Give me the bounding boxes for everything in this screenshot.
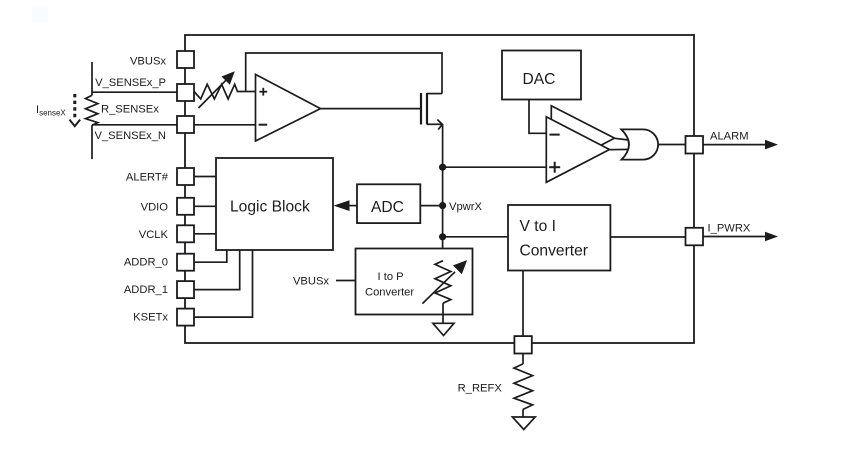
wire: op-amp output to gate (321, 108, 422, 110)
comparator (rear) (551, 106, 614, 172)
wire: V_SENSEx_N to op-amp inverting input (194, 124, 256, 126)
wire: + input to op-amp (246, 91, 256, 93)
Logic Block (216, 158, 333, 250)
ADC block (357, 184, 420, 223)
svg-text:VDIO: VDIO (141, 201, 169, 213)
pin V_SENSEx_N (94, 116, 194, 142)
variable resistor (input gain) (194, 84, 246, 99)
current arrow IsenseX (70, 94, 81, 126)
ground (I to P) (433, 323, 454, 335)
pin ALARM (686, 131, 779, 154)
pin ADDR_0 (124, 250, 227, 271)
node VpwrX rail (442, 124, 444, 260)
svg-text:I_PWRX: I_PWRX (708, 223, 751, 235)
svg-text:I to P: I to P (378, 271, 404, 283)
comparator (front) U3 (546, 117, 609, 183)
wire: ADC to Logic Block arrow (334, 200, 358, 211)
wire: OR gate to ALARM pin (658, 144, 686, 146)
transistor Q1 (MOSFET) (421, 93, 442, 130)
wire: V_SENSEx_N external (92, 124, 177, 126)
pin I_PWRX (686, 223, 779, 246)
junction (439, 164, 446, 171)
OR gate (621, 129, 658, 159)
wire: ADC to VpwrX (420, 205, 442, 207)
wire: op-amp feedback loop (246, 53, 442, 94)
wire: V_SENSEx_P external (92, 91, 177, 93)
pin KSETx (133, 250, 252, 326)
svg-text:VBUSx: VBUSx (130, 56, 166, 68)
resistor R_SENSEx (86, 95, 98, 125)
pin VBUSx (130, 51, 194, 68)
ground (R_REFX) (512, 417, 535, 430)
variable resistor (I to P) (435, 261, 451, 304)
pin V_SENSEx_P (95, 77, 194, 101)
svg-text:V_SENSEx_N: V_SENSEx_N (94, 130, 166, 142)
wire: VpwrX to comparator + (443, 166, 547, 168)
wire: comparator outputs to OR gate (615, 138, 629, 140)
junction (439, 202, 446, 209)
wire: V to I output to I_PWRX (610, 236, 686, 238)
svg-text:ADDR_0: ADDR_0 (124, 257, 168, 269)
svg-text:V to I: V to I (520, 218, 556, 235)
I to P Converter block (356, 249, 473, 315)
svg-text:Converter: Converter (365, 287, 414, 299)
svg-text:VBUSx: VBUSx (293, 276, 329, 288)
svg-text:ADDR_1: ADDR_1 (124, 284, 168, 296)
wire: I to P to ground (442, 303, 444, 323)
IC boundary box (185, 35, 694, 343)
resistor R_REFX (514, 354, 533, 418)
V to I Converter block (508, 205, 610, 271)
svg-text:DAC: DAC (523, 71, 556, 88)
svg-text:R_REFX: R_REFX (458, 383, 503, 395)
wire: V to I to R_REFX pin (522, 271, 524, 337)
pin VDIO (141, 198, 216, 215)
junction (439, 233, 446, 240)
svg-text:VCLK: VCLK (139, 229, 169, 241)
svg-text:KSETx: KSETx (133, 312, 168, 324)
wire: VpwrX to V to I converter (443, 236, 508, 238)
svg-text:R_SENSEx: R_SENSEx (101, 104, 159, 116)
svg-text:V_SENSEx_P: V_SENSEx_P (95, 77, 166, 89)
wire: external sense stub bottom (91, 125, 93, 159)
svg-text:ADC: ADC (371, 199, 404, 216)
wire: external sense stub top (91, 62, 93, 95)
svg-text:ALERT#: ALERT# (126, 172, 169, 184)
svg-text:Converter: Converter (520, 243, 588, 260)
svg-text:ALARM: ALARM (710, 131, 749, 143)
DAC block (502, 51, 581, 100)
pin VCLK (139, 225, 216, 242)
pin ALERT# (126, 168, 216, 185)
svg-text:Logic Block: Logic Block (230, 199, 310, 216)
pin ADDR_1 (124, 250, 240, 298)
wire: DAC to comparator - input (529, 100, 546, 134)
svg-text:VpwrX: VpwrX (449, 201, 482, 213)
op-amp U1 (256, 74, 321, 141)
pin R_REFX (514, 336, 531, 353)
